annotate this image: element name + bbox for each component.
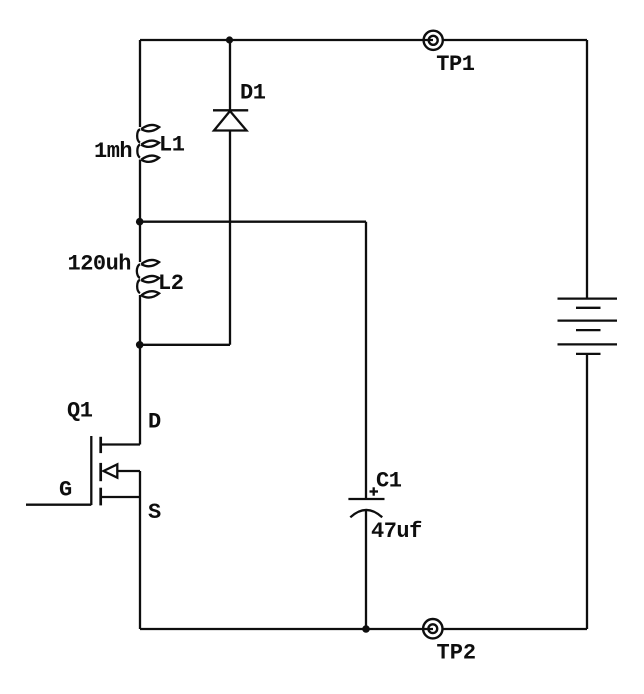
svg-text:TP1: TP1 [436, 52, 474, 77]
svg-text:TP2: TP2 [437, 641, 477, 666]
svg-text:C1: C1 [376, 469, 402, 494]
svg-text:120uh: 120uh [68, 251, 132, 276]
svg-text:S: S [148, 500, 161, 525]
svg-text:L1: L1 [159, 133, 185, 158]
svg-text:Q1: Q1 [67, 399, 93, 424]
svg-text:D1: D1 [240, 81, 266, 106]
svg-text:G: G [59, 478, 72, 503]
svg-text:47uf: 47uf [371, 519, 422, 544]
svg-text:D: D [148, 410, 161, 435]
svg-text:L2: L2 [158, 271, 183, 296]
svg-text:1mh: 1mh [94, 139, 132, 164]
